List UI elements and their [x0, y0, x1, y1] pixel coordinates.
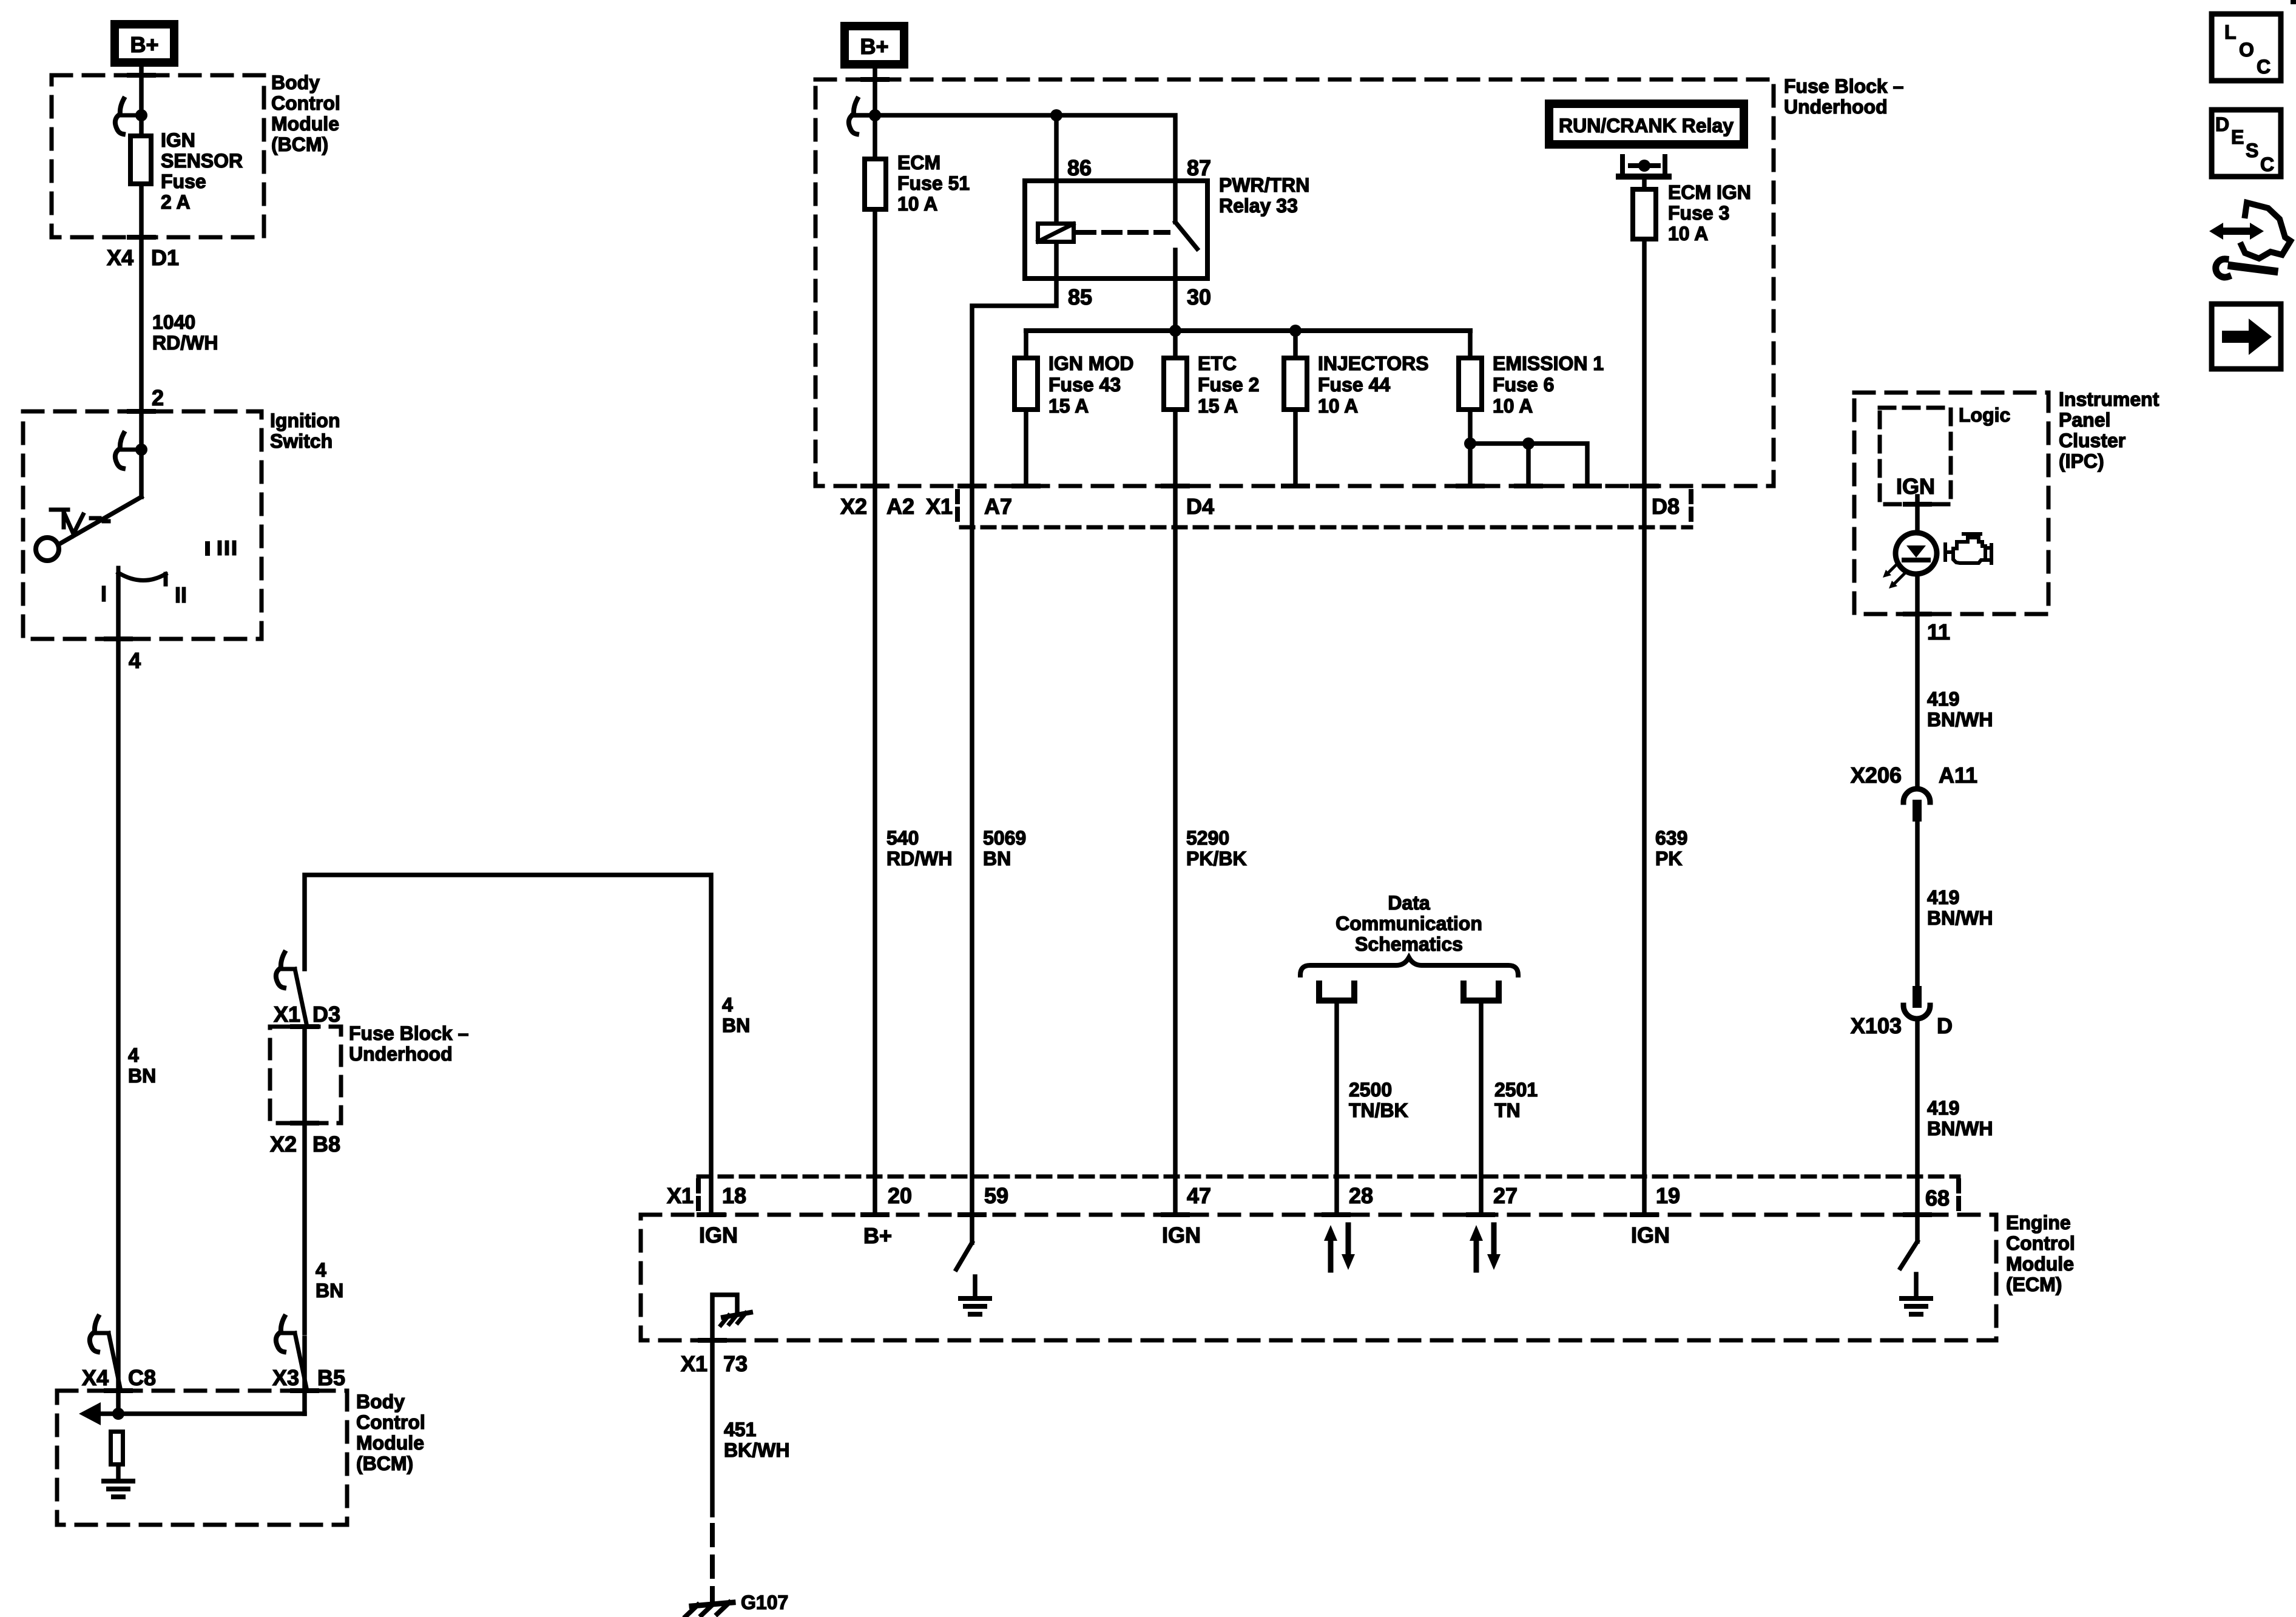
svg-text:IGN: IGN [161, 129, 195, 151]
svg-text:451: 451 [724, 1419, 756, 1440]
icon forward-arrow box [2212, 304, 2281, 369]
svg-text:5290: 5290 [1186, 827, 1229, 849]
wire 451 BK/WH to ground [710, 1340, 715, 1515]
svg-text:X3: X3 [272, 1365, 299, 1390]
wire EMISSION 1 fuse outputs [1470, 412, 1587, 486]
svg-text:E: E [2231, 126, 2244, 148]
svg-text:I: I [101, 581, 107, 606]
wire relay 30 down to fuse bus [1173, 279, 1178, 356]
label Fuse Block Underhood (big) [1784, 75, 1903, 118]
svg-text:419: 419 [1927, 688, 1959, 710]
svg-text:ECM: ECM [897, 152, 940, 174]
label BCM (top) [271, 72, 340, 155]
svg-text:Fuse 44: Fuse 44 [1318, 374, 1390, 396]
svg-text:85: 85 [1068, 285, 1092, 309]
svg-text:Fuse 3: Fuse 3 [1668, 202, 1729, 224]
fuse ECM IGN Fuse 3 10A [1633, 189, 1656, 239]
svg-text:Fuse: Fuse [161, 170, 206, 192]
icon service glyph (arrow and wrench) [2209, 203, 2291, 277]
connector clip X4/C8 [90, 1317, 121, 1391]
svg-text:Underhood: Underhood [349, 1043, 453, 1065]
wire label 451 BK/WH [724, 1419, 789, 1461]
off-page connector pin 28 [1319, 984, 1354, 1001]
module box Engine Control Module ECM [641, 1215, 1996, 1340]
page artifact mark [2291, 0, 2296, 4]
junction dot relay pin 86 tap [1050, 109, 1062, 121]
svg-text:X1: X1 [926, 494, 953, 519]
svg-text:BN/WH: BN/WH [1927, 907, 1993, 929]
label INJECTORS Fuse 44 10A [1318, 353, 1429, 417]
engine icon (MIL) [1945, 534, 1991, 563]
label IGN MOD Fuse 43 15A [1048, 353, 1133, 417]
svg-text:Engine: Engine [2006, 1212, 2071, 1234]
label ECM IGN Fuse 3 10A [1668, 181, 1751, 245]
connector separator D8 [1689, 491, 1693, 523]
wire B+ feed into fuse block [873, 69, 877, 157]
svg-text:B+: B+ [860, 34, 888, 59]
wire label 419 BN/WH (2) [1927, 886, 1993, 929]
svg-text:SENSOR: SENSOR [161, 150, 243, 172]
junction dot bus/pin30 [1169, 325, 1181, 337]
svg-text:(BCM): (BCM) [271, 133, 328, 155]
svg-text:Body: Body [271, 72, 320, 93]
relay PWR/TRN Relay 33 box [1025, 181, 1207, 279]
switch ECM pin 68 to ground [1900, 1215, 1917, 1268]
connector label X206 / A11 [1851, 763, 1977, 788]
svg-text:BN: BN [316, 1280, 343, 1301]
svg-text:A7: A7 [984, 494, 1012, 519]
wire tap to relay pin 86 [1054, 115, 1059, 181]
wire BCM internal bus [99, 1411, 305, 1416]
ground ECM pin 59 [961, 1298, 990, 1314]
svg-text:PK: PK [1655, 848, 1682, 869]
module box Instrument Panel Cluster IPC [1854, 393, 2048, 614]
wire resistor to ground [116, 1467, 121, 1481]
label EMISSION 1 Fuse 6 10A [1493, 353, 1604, 417]
svg-text:18: 18 [722, 1183, 746, 1208]
connector label X1 / 73 [681, 1351, 748, 1376]
switch position mark IV [51, 510, 109, 534]
module box Ignition Switch [23, 411, 262, 639]
svg-text:X4: X4 [107, 245, 133, 270]
connector label X2 / A2 [840, 494, 914, 519]
wire ETC fuse output (5290 PK/BK) to ECM pin 47 [1173, 412, 1178, 1215]
logic box IPC [1880, 408, 1951, 504]
svg-text:Control: Control [2006, 1232, 2075, 1254]
svg-text:27: 27 [1493, 1183, 1518, 1208]
arrowhead BCM logic input [79, 1402, 101, 1425]
svg-text:D: D [1937, 1013, 1953, 1038]
svg-text:B8: B8 [312, 1132, 340, 1156]
svg-text:X103: X103 [1851, 1013, 1902, 1038]
svg-text:X2: X2 [270, 1132, 297, 1156]
svg-text:Module: Module [356, 1432, 424, 1454]
connector label X1 / A7 [926, 494, 1012, 519]
wire ignition switch output circuit 4 BN [116, 575, 121, 1414]
svg-text:4: 4 [129, 648, 141, 673]
relay RUN/CRANK Relay (name box) [1549, 104, 1744, 144]
svg-text:BN: BN [722, 1014, 750, 1036]
svg-text:Fuse Block –: Fuse Block – [1784, 75, 1903, 97]
svg-text:540: 540 [886, 827, 919, 849]
indicator LED diode [1904, 545, 1928, 560]
svg-text:10 A: 10 A [897, 193, 937, 215]
ignition switch movable arm [59, 497, 141, 544]
ground BCM internal [104, 1481, 133, 1497]
svg-text:RUN/CRANK Relay: RUN/CRANK Relay [1559, 115, 1734, 137]
connector clip X1/D3 [276, 953, 307, 1027]
svg-text:Cluster: Cluster [2059, 430, 2125, 451]
junction dot BCM bus [112, 1408, 124, 1420]
wire label 4 BN (bridge) [722, 994, 750, 1036]
connector label X2 / B8 [270, 1132, 340, 1156]
wire stub EMISSION 1 fuse [1468, 331, 1473, 356]
off-page connector pin 27 [1464, 984, 1499, 1001]
svg-text:10 A: 10 A [1318, 395, 1358, 417]
fuse IGN SENSOR Fuse 2A [130, 136, 151, 184]
svg-text:87: 87 [1187, 155, 1211, 180]
wire D3 to B8 to BCM B5 [302, 1027, 307, 1333]
wire B+ bus to relay pins 86/87 [853, 115, 1175, 181]
svg-text:Fuse Block –: Fuse Block – [349, 1022, 468, 1044]
wire label 2500 TN/BK [1349, 1079, 1408, 1121]
label Fuse Block Underhood (small) [349, 1022, 468, 1065]
module box Fuse Block Underhood (small) [270, 1027, 341, 1123]
svg-text:20: 20 [888, 1183, 912, 1208]
module box Fuse Block Underhood (big) [815, 79, 1774, 486]
svg-text:419: 419 [1927, 886, 1959, 908]
junction dot bus/injectors [1289, 325, 1302, 337]
data arrows pin 28 [1324, 1225, 1355, 1270]
wire label 4 BN (left) [128, 1044, 156, 1087]
svg-text:10 A: 10 A [1668, 223, 1708, 245]
svg-text:BK/WH: BK/WH [724, 1439, 789, 1461]
svg-text:RD/WH: RD/WH [152, 332, 218, 354]
connector bracket RUN/CRANK relay [1619, 157, 1669, 177]
power symbol B+ (left) [115, 24, 174, 62]
connector corner right [1956, 1181, 1961, 1215]
brace data communication [1300, 957, 1518, 975]
svg-text:PK/BK: PK/BK [1186, 848, 1247, 869]
svg-text:TN/BK: TN/BK [1349, 1099, 1408, 1121]
label Data Communication Schematics [1335, 892, 1482, 955]
connector label X103 / D [1851, 1013, 1953, 1038]
connector clip at ignition switch contact [115, 433, 141, 468]
svg-text:C8: C8 [128, 1365, 156, 1390]
svg-text:EMISSION 1: EMISSION 1 [1493, 353, 1604, 374]
svg-text:(ECM): (ECM) [2006, 1274, 2062, 1295]
wire indicator to IPC pin 11 [1915, 574, 1920, 789]
svg-text:BN: BN [983, 848, 1011, 869]
label Instrument Panel Cluster (IPC) [2059, 388, 2159, 472]
module box Body Control Module BCM (top) [52, 75, 264, 237]
svg-text:G107: G107 [741, 1592, 788, 1613]
junction dot emission tap 2 [1522, 437, 1535, 450]
LED light arrows [1883, 563, 1904, 589]
wire label 4 BN (B8 branch) [316, 1259, 343, 1301]
connector label X4 / C8 [82, 1365, 156, 1390]
svg-text:11: 11 [1927, 619, 1950, 644]
svg-text:15 A: 15 A [1048, 395, 1089, 417]
junction dot B+ bus tap [869, 109, 881, 121]
svg-text:4: 4 [128, 1044, 139, 1066]
svg-text:Instrument: Instrument [2059, 388, 2159, 410]
svg-text:1040: 1040 [152, 311, 195, 333]
svg-text:47: 47 [1187, 1183, 1211, 1208]
svg-text:419: 419 [1927, 1097, 1959, 1119]
wire INJECTORS fuse output [1293, 412, 1298, 486]
wire stub INJECTORS fuse [1293, 331, 1298, 356]
svg-text:Data: Data [1388, 892, 1430, 914]
svg-text:639: 639 [1655, 827, 1687, 849]
connector X206 [1903, 789, 1930, 822]
svg-text:O: O [2239, 39, 2254, 61]
svg-text:B+: B+ [130, 32, 158, 57]
wire label 540 RD/WH [886, 827, 952, 869]
connector face X1 fuse block (dashed) [961, 525, 1691, 530]
svg-text:Control: Control [271, 92, 340, 114]
fuse ECM Fuse 51 10A [865, 159, 886, 209]
svg-text:Ignition: Ignition [270, 410, 340, 431]
svg-text:PWR/TRN: PWR/TRN [1219, 174, 1309, 196]
svg-text:2500: 2500 [1349, 1079, 1392, 1101]
label IGN SENSOR Fuse 2A [161, 129, 243, 213]
wire terminal ticks at module boundaries [106, 75, 1930, 1391]
ignition switch pivot circle [36, 538, 59, 561]
data arrows pin 27 [1470, 1225, 1501, 1270]
ground ECM case (pin 73) [721, 1312, 751, 1325]
svg-text:D1: D1 [151, 245, 179, 270]
svg-text:D4: D4 [1186, 494, 1214, 519]
connector X103 [1903, 986, 1930, 1019]
svg-text:A11: A11 [1939, 763, 1977, 788]
svg-text:RD/WH: RD/WH [886, 848, 952, 869]
wire label 639 PK [1655, 827, 1687, 869]
svg-text:Switch: Switch [270, 430, 333, 452]
icon DESC box [2212, 110, 2281, 177]
svg-text:TN: TN [1494, 1099, 1521, 1121]
wire ECM pin 73 internal ground lead [712, 1295, 737, 1340]
svg-text:68: 68 [1925, 1186, 1950, 1210]
wire X206 to X103 [1915, 822, 1920, 986]
wire ECM fuse output (540 RD/WH) to ECM pin 20 [873, 212, 877, 1215]
svg-text:Fuse 43: Fuse 43 [1048, 374, 1121, 396]
label ETC Fuse 2 15A [1198, 353, 1259, 417]
wire label 419 BN/WH (1) [1927, 688, 1993, 731]
wire relay 85 to ECM pin 59 (5069 BN) [972, 279, 1056, 1215]
connector corner X1 left [696, 1181, 701, 1215]
connector label X1 / D3 [274, 1002, 340, 1027]
wire RUN/CRANK to ECM IGN fuse [1642, 177, 1647, 187]
junction dot switch contact [135, 444, 147, 456]
svg-text:86: 86 [1067, 155, 1092, 180]
wire label 2501 TN [1494, 1079, 1538, 1121]
svg-text:Communication: Communication [1335, 913, 1482, 934]
wire IGN to indicator [1915, 496, 1920, 534]
svg-text:Fuse 6: Fuse 6 [1493, 374, 1554, 396]
wire label 1040 RD/WH [152, 311, 218, 354]
svg-text:Module: Module [271, 113, 339, 135]
svg-text:X2: X2 [840, 494, 867, 519]
connector clip at BCM B+ input [115, 99, 141, 134]
svg-text:S: S [2246, 140, 2258, 161]
label ECM Fuse 51 10A [897, 152, 970, 215]
relay switch pin 87 to 30 [1175, 181, 1197, 279]
svg-text:B+: B+ [863, 1223, 892, 1248]
fuse INJECTORS Fuse 44 10A [1284, 358, 1307, 410]
junction dot BCM clip [135, 109, 147, 121]
wire coil stubs pin 86/85 [1054, 181, 1059, 279]
svg-text:X1: X1 [274, 1002, 300, 1027]
svg-text:4: 4 [722, 994, 733, 1016]
fuse IGN MOD Fuse 43 15A [1015, 358, 1038, 410]
wire fuse bus [1026, 328, 1470, 333]
wire label 5069 BN [983, 827, 1026, 869]
svg-text:IGN: IGN [699, 1223, 738, 1247]
svg-text:X1: X1 [667, 1183, 694, 1208]
svg-text:X4: X4 [82, 1365, 109, 1390]
svg-text:IGN: IGN [1162, 1223, 1201, 1247]
svg-text:IGN MOD: IGN MOD [1048, 353, 1133, 374]
resistor BCM pull-down [111, 1432, 123, 1465]
svg-text:BN: BN [128, 1065, 156, 1087]
wire ground stem pin 59 [973, 1277, 977, 1298]
connector label X4 / D1 [107, 245, 179, 270]
switch travel arc [118, 568, 166, 584]
icon LOC box [2212, 14, 2281, 81]
switch position mark III [208, 542, 234, 553]
svg-text:C: C [2260, 154, 2274, 175]
svg-text:Body: Body [356, 1391, 405, 1413]
junction dot emission tap 1 [1464, 437, 1476, 450]
svg-text:L: L [2224, 21, 2237, 43]
svg-text:(IPC): (IPC) [2059, 450, 2104, 472]
switch ECM pin 59 to ground [956, 1215, 972, 1269]
fuse ETC Fuse 2 15A [1164, 358, 1187, 410]
svg-text:X206: X206 [1851, 763, 1902, 788]
label Engine Control Module (ECM) [2006, 1212, 2075, 1295]
svg-text:15 A: 15 A [1198, 395, 1238, 417]
wire bridge 4 BN: fuse block D3 up over to ECM pin 18 [305, 875, 711, 1215]
svg-text:59: 59 [984, 1183, 1008, 1208]
wire 2500 TN/BK to ECM pin 28 [1334, 1001, 1339, 1215]
connector clip X3/B5 [276, 1317, 307, 1391]
svg-text:A2: A2 [886, 494, 914, 519]
svg-text:Underhood: Underhood [1784, 96, 1888, 118]
relay actuation dashed link [1078, 230, 1168, 235]
svg-text:INJECTORS: INJECTORS [1318, 353, 1429, 374]
svg-text:19: 19 [1656, 1183, 1680, 1208]
wire label 419 BN/WH (3) [1927, 1097, 1993, 1139]
fuse EMISSION 1 Fuse 6 10A [1459, 358, 1482, 410]
svg-text:2501: 2501 [1494, 1079, 1538, 1101]
svg-text:4: 4 [316, 1259, 326, 1281]
module box Body Control Module BCM (bottom) [57, 1391, 347, 1525]
svg-text:BN/WH: BN/WH [1927, 1118, 1993, 1139]
wire ECM IGN fuse output (639 PK) to ECM pin 19 [1642, 241, 1647, 1215]
connector face X1 ECM (dashed) [698, 1175, 1959, 1179]
relay coil [1038, 224, 1074, 242]
label Ignition Switch [270, 410, 340, 452]
connector label X3 / B5 [272, 1365, 345, 1390]
wire stub IGN MOD fuse [1024, 331, 1028, 356]
svg-text:30: 30 [1187, 285, 1211, 309]
svg-text:X1: X1 [681, 1351, 707, 1376]
svg-text:D: D [2215, 113, 2229, 135]
svg-text:Schematics: Schematics [1355, 933, 1463, 955]
wire dashed continuation to G107 [710, 1525, 715, 1602]
svg-text:Logic: Logic [1959, 404, 2010, 426]
svg-text:73: 73 [723, 1351, 748, 1376]
svg-text:5069: 5069 [983, 827, 1026, 849]
svg-text:II: II [175, 582, 187, 607]
svg-text:IGN: IGN [1631, 1223, 1670, 1247]
ground G107 [686, 1602, 733, 1616]
svg-text:10 A: 10 A [1493, 395, 1533, 417]
ground ECM pin 68 [1902, 1298, 1931, 1314]
indicator LED circle [1896, 533, 1937, 574]
wire X3/B5 branch into BCM [302, 1338, 307, 1414]
svg-text:Fuse 2: Fuse 2 [1198, 374, 1259, 396]
svg-text:Relay 33: Relay 33 [1219, 195, 1298, 217]
wire IGN MOD fuse output [1024, 412, 1028, 486]
svg-text:Panel: Panel [2059, 409, 2110, 431]
svg-text:(BCM): (BCM) [356, 1453, 413, 1474]
svg-text:BN/WH: BN/WH [1927, 709, 1993, 731]
power symbol B+ (fuse block) [845, 26, 904, 64]
svg-text:2: 2 [152, 385, 164, 410]
svg-text:Control: Control [356, 1411, 425, 1433]
junction dot RUN/CRANK output [1638, 160, 1650, 172]
svg-text:Module: Module [2006, 1253, 2074, 1275]
wire ground stem pin 68 [1914, 1274, 1919, 1298]
connector separator X1 (fuse block) [955, 491, 960, 523]
wire 2501 TN to ECM pin 27 [1479, 1001, 1484, 1215]
wire B+ to ignition switch contact (x=233) [139, 67, 144, 497]
svg-text:B5: B5 [317, 1365, 345, 1390]
svg-text:2 A: 2 A [161, 191, 191, 213]
wire label 5290 PK/BK [1186, 827, 1247, 869]
svg-text:C: C [2257, 56, 2271, 78]
label BCM (bottom) [356, 1391, 425, 1474]
svg-text:28: 28 [1349, 1183, 1373, 1208]
label PWR/TRN Relay 33 [1219, 174, 1309, 217]
svg-text:ETC: ETC [1198, 353, 1237, 374]
svg-text:D3: D3 [312, 1002, 340, 1027]
svg-text:Fuse 51: Fuse 51 [897, 172, 970, 194]
svg-text:D8: D8 [1652, 494, 1680, 519]
svg-text:ECM IGN: ECM IGN [1668, 181, 1751, 203]
connector clip B+ fuse block [849, 99, 875, 134]
wire X103 to ECM pin 68 [1915, 1019, 1920, 1215]
